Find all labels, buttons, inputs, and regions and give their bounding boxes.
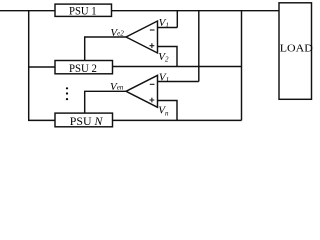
svg-text:LOAD: LOAD [280, 43, 313, 55]
svg-text:PSU N: PSU N [70, 114, 104, 128]
svg-text:Ve2: Ve2 [110, 27, 124, 39]
svg-text:PSU 2: PSU 2 [69, 61, 97, 75]
svg-text:PSU 1: PSU 1 [69, 4, 97, 18]
svg-text:Ven: Ven [110, 81, 124, 93]
